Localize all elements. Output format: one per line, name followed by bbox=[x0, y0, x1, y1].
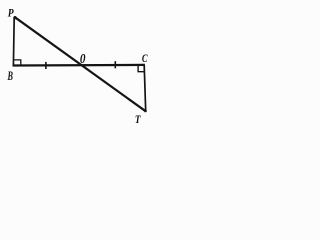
wire BC (horizontal base line from B through O to C) bbox=[13, 64, 145, 67]
tick mark on segment BO bbox=[45, 62, 47, 69]
right angle marker at C bbox=[138, 66, 144, 72]
node P (corner blob) bbox=[13, 16, 16, 19]
wire PT (diagonal transversal from P through O to T) bbox=[15, 17, 146, 111]
right angle marker at B bbox=[14, 60, 21, 65]
wire PB (vertical segment from P down to B) bbox=[12, 17, 15, 66]
wire CT (vertical segment from C down to T) bbox=[144, 65, 146, 111]
node T (corner blob) bbox=[144, 110, 147, 113]
tick mark on segment OC bbox=[114, 61, 116, 68]
svg-text:C: C bbox=[142, 51, 148, 65]
svg-text:T: T bbox=[135, 112, 141, 126]
svg-text:0: 0 bbox=[80, 51, 86, 66]
svg-text:B: B bbox=[7, 68, 13, 83]
svg-text:P: P bbox=[8, 7, 15, 19]
